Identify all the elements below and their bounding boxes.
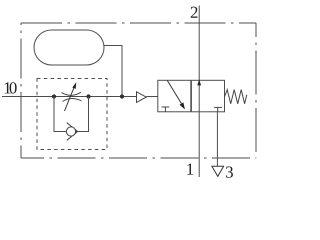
node junction left of throttle [52,94,56,98]
valve V1 body (3/2 valve) [158,80,225,112]
enclosure dash-dot border right [255,23,257,158]
throttle adjustment arrow [65,87,75,111]
enclosure dash-dot border bottom [21,157,256,159]
node junction right of throttle [86,94,90,98]
return spring [225,90,247,104]
label port 10 digit 0 [10,82,17,93]
right position arrowhead up [197,79,201,85]
node junction reservoir/main [120,94,124,98]
right position blocked port T [217,107,219,111]
pilot amplifier triangle [137,92,147,103]
check valve ball circle [66,127,75,136]
label port 2 [191,7,198,18]
throttle restrictor arcs [62,92,81,95]
label port 1 [187,164,193,175]
left position blocked port T [164,107,166,112]
label port 3 [226,166,233,177]
wire: reservoir to main line [104,46,122,97]
enclosure dash-dot border top [21,22,256,24]
wire: pilot to valve [146,96,158,98]
valve position divider [190,80,192,112]
wire port 3 [216,112,218,167]
exhaust triangle port 3 [212,166,224,176]
flow control unit dashed box [37,79,107,150]
wire: bypass branch [54,97,89,132]
wire: main pilot line from port 10 [2,96,137,98]
wire port 2 / right position pass arrow / wire port 1 [198,6,200,178]
air reservoir capsule [34,30,104,65]
label port 10 digit 1 [5,82,11,93]
left position flow path arrow (2 to 3) [167,80,181,103]
check valve seat [67,123,78,141]
enclosure dash-dot border left [20,23,22,158]
